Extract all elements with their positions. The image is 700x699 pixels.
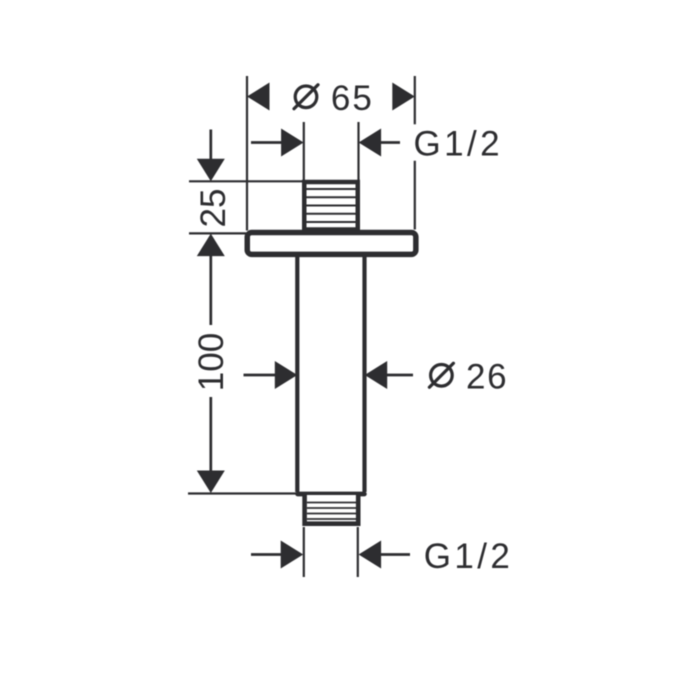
- svg-text:25: 25: [194, 189, 233, 228]
- svg-text:G1/2: G1/2: [414, 125, 503, 164]
- svg-text:G1/2: G1/2: [424, 537, 513, 576]
- svg-text:100: 100: [192, 333, 231, 391]
- svg-text:65: 65: [331, 79, 374, 118]
- svg-text:26: 26: [466, 358, 508, 397]
